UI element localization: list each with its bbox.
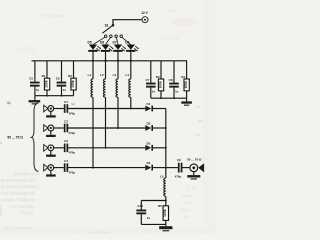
svg-text:C10: C10	[137, 204, 143, 208]
capacitor C6	[56, 61, 66, 96]
svg-text:S2: S2	[71, 102, 75, 106]
capacitor C9	[175, 158, 190, 179]
ground input 2	[46, 131, 56, 137]
svg-text:ete: ete	[196, 132, 201, 137]
resistor R1	[42, 61, 50, 96]
switch contact 1	[104, 35, 107, 38]
wire tank top	[141, 200, 166, 202]
LED D8	[125, 41, 139, 61]
node bus/L1	[92, 60, 94, 62]
capacitor C2	[54, 119, 76, 135]
capacitor C10	[136, 201, 150, 225]
wire contact2 to D6	[106, 37, 111, 44]
ground left RC	[29, 96, 41, 105]
node row4/L1	[92, 167, 94, 169]
svg-text:100k: 100k	[184, 81, 188, 89]
inductor L1	[88, 61, 93, 98]
node bus/L2	[104, 60, 106, 62]
svg-text:C2: C2	[64, 119, 68, 123]
svg-text:100k: 100k	[71, 80, 75, 88]
svg-text:no me pay of her: no me pay of her	[14, 172, 40, 176]
svg-text:at 6: at 6	[185, 201, 191, 205]
svg-text:a mde: a mde	[182, 194, 191, 198]
node bus/row2	[165, 127, 167, 129]
inductor L4	[125, 61, 130, 98]
svg-text:R2: R2	[68, 74, 72, 78]
wire L1 down to row 4	[92, 97, 94, 167]
switch S1	[102, 24, 114, 34]
svg-text:l an of sant this: l an of sant this	[10, 205, 34, 209]
svg-text:R3: R3	[156, 75, 160, 79]
svg-text:R5: R5	[158, 204, 162, 208]
capacitor C5	[29, 61, 39, 96]
switch contact 3	[115, 35, 118, 38]
diode D1	[145, 102, 166, 111]
inductor L3	[113, 61, 118, 98]
node bus/L4	[130, 60, 132, 62]
wire output row	[166, 167, 178, 169]
node tank top	[165, 200, 167, 202]
input source row 2	[44, 125, 54, 132]
svg-text:50 ... 75 Ω: 50 ... 75 Ω	[187, 157, 202, 161]
input brace	[31, 103, 38, 171]
diode D3	[145, 141, 166, 150]
12V supply terminal	[141, 11, 148, 23]
svg-text:100k: 100k	[159, 81, 163, 89]
inductor L2	[100, 61, 105, 98]
svg-text:1n: 1n	[63, 88, 67, 92]
wire row 3	[68, 147, 145, 149]
wire right RC bottom rail	[151, 97, 187, 99]
wire tank bottom	[141, 223, 166, 225]
wire left RC bottom rail	[35, 95, 74, 97]
input source row 3	[44, 145, 54, 152]
wire row 2	[68, 127, 145, 129]
wire contact1 to D5	[93, 37, 105, 44]
svg-text:C6: C6	[56, 77, 60, 81]
node row2/L3	[117, 127, 119, 129]
svg-text:ere: ere	[184, 215, 189, 219]
ground tank	[159, 224, 172, 231]
LED D5	[88, 41, 102, 61]
svg-text:C3: C3	[64, 139, 68, 143]
switch contact 2	[110, 35, 113, 38]
output load speaker	[190, 163, 204, 172]
svg-text:D3: D3	[146, 141, 150, 145]
node rail/R1	[46, 95, 48, 97]
paper background	[0, 0, 215, 234]
top supply bus wire	[32, 60, 188, 62]
svg-text:100k: 100k	[45, 80, 49, 88]
svg-text:of the: of the	[168, 9, 177, 13]
svg-text:C1: C1	[64, 100, 68, 104]
svg-text:the corner against: the corner against	[4, 226, 32, 230]
svg-text:1n: 1n	[147, 216, 151, 220]
resistor R3	[156, 61, 164, 98]
capacitor C8	[169, 61, 179, 98]
svg-text:R1: R1	[42, 74, 46, 78]
svg-text:100k: 100k	[163, 209, 167, 217]
svg-text:if we put: if we put	[20, 211, 34, 215]
resistor R4	[181, 61, 189, 98]
wire summing bus	[165, 109, 167, 179]
svg-text:noch che template and: noch che template and	[1, 192, 35, 196]
svg-text:D6: D6	[100, 41, 104, 45]
svg-text:D5: D5	[88, 41, 92, 45]
ground input 1	[46, 111, 56, 117]
svg-text:L3: L3	[113, 73, 117, 77]
svg-text:470p: 470p	[175, 175, 182, 179]
svg-text:an electronic: an electronic	[90, 231, 110, 235]
input source row 1	[44, 105, 54, 112]
wire contact3 to D7	[116, 37, 118, 44]
input source row 4	[44, 164, 54, 171]
svg-text:D2: D2	[146, 122, 150, 126]
diode D4	[145, 161, 166, 170]
svg-text:L2: L2	[100, 73, 104, 77]
wire row 1	[68, 108, 145, 110]
svg-text:470p: 470p	[69, 171, 76, 175]
svg-text:D4: D4	[146, 161, 150, 165]
ground input 4	[46, 171, 56, 177]
LED D7	[113, 41, 127, 61]
diode D2	[145, 122, 166, 131]
wire contact4 to D8	[122, 37, 131, 44]
svg-text:p. 11: p. 11	[188, 187, 196, 191]
svg-text:D7: D7	[113, 41, 117, 45]
svg-text:L4: L4	[125, 73, 129, 77]
ground right RC	[181, 98, 192, 106]
wire L2 down to row 3	[105, 97, 107, 148]
svg-text:470p: 470p	[69, 131, 76, 135]
capacitor C4	[54, 159, 76, 175]
svg-text:dt and wil more: dt and wil more	[42, 14, 65, 18]
svg-text:C7: C7	[145, 78, 149, 82]
wire 12V to switch	[113, 20, 142, 25]
svg-text:470p: 470p	[69, 151, 76, 155]
svg-text:mr with sec may a kan: mr with sec may a kan	[1, 179, 35, 183]
svg-text:C8: C8	[169, 78, 173, 82]
svg-text:D1: D1	[146, 102, 150, 106]
svg-text:L5: L5	[160, 175, 164, 179]
resistor R2	[68, 61, 76, 96]
node rail/R3	[160, 97, 162, 99]
node row3/L2	[105, 147, 107, 149]
inductor L5	[160, 175, 166, 201]
wire L3 down to row 2	[117, 97, 119, 128]
node bus/row4	[165, 167, 167, 169]
svg-text:the portal cut and below: the portal cut and below	[1, 185, 38, 189]
svg-text:the re: the re	[181, 208, 190, 212]
svg-text:D8: D8	[125, 41, 129, 45]
svg-text:470p: 470p	[69, 111, 76, 115]
wire row 4	[68, 167, 145, 169]
node rail/C6	[61, 95, 63, 97]
node row1/L4	[130, 108, 132, 110]
wire L4 down to row 1	[130, 97, 132, 108]
node rail/C8	[173, 97, 175, 99]
capacitor C7	[145, 61, 155, 98]
svg-text:C9: C9	[177, 158, 181, 162]
node bus/row3	[165, 147, 167, 149]
svg-text:S1: S1	[105, 24, 109, 28]
svg-text:C4: C4	[64, 159, 68, 163]
svg-text:1n: 1n	[152, 89, 156, 93]
svg-text:rld: rld	[198, 118, 202, 123]
svg-text:a request. Of gate it an: a request. Of gate it an	[1, 198, 35, 202]
svg-text:12 V: 12 V	[141, 11, 148, 15]
switch contact 4	[120, 35, 123, 38]
svg-text:50 ... 75 Ω: 50 ... 75 Ω	[7, 136, 23, 140]
LED D6	[100, 41, 114, 61]
capacitor C3	[54, 139, 76, 155]
svg-text:L1: L1	[88, 73, 92, 77]
svg-text:R4: R4	[181, 75, 185, 79]
capacitor C1	[54, 100, 76, 116]
node bus/L3	[117, 60, 119, 62]
resistor R5	[158, 201, 169, 225]
ground output	[187, 172, 200, 180]
ground input 3	[46, 151, 56, 157]
svg-text:1n: 1n	[36, 88, 40, 92]
svg-text:1n: 1n	[175, 89, 179, 93]
svg-text:C5: C5	[29, 77, 33, 81]
